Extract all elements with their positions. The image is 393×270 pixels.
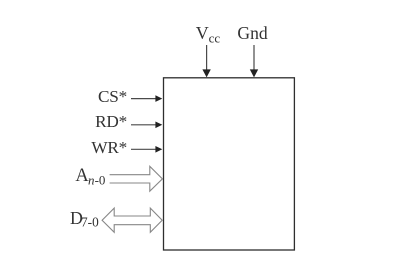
svg-text:CS*: CS* [98, 87, 127, 106]
svg-text:V: V [196, 23, 209, 43]
svg-text:Gnd: Gnd [237, 23, 268, 43]
svg-text:-0: -0 [95, 172, 106, 187]
svg-text:7-0: 7-0 [81, 215, 99, 230]
svg-text:WR*: WR* [91, 138, 127, 157]
svg-text:n: n [88, 172, 95, 187]
svg-text:RD*: RD* [95, 112, 127, 131]
svg-text:cc: cc [209, 30, 221, 45]
